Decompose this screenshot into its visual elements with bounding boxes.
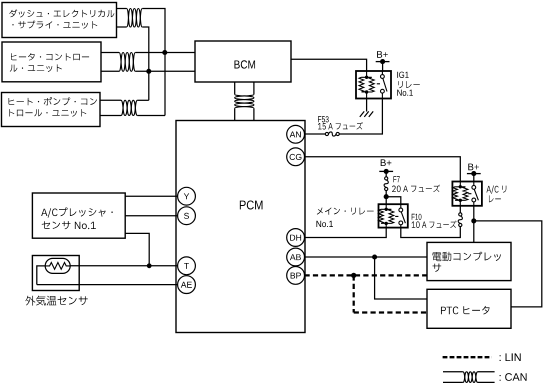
label: main relay line1 bbox=[317, 208, 374, 215]
CAN twisted pair: heater control unit bbox=[119, 53, 135, 72]
junction: AB branch bbox=[372, 254, 377, 259]
wire: heat pump CAN-L to twist bbox=[100, 115, 121, 117]
wire: B+ to A/C relay switch bbox=[473, 174, 475, 182]
label: fuse F10 line1 bbox=[412, 214, 422, 220]
IG1 relay coil bbox=[359, 71, 374, 99]
wire: heater control CAN-H to twist bbox=[101, 52, 119, 54]
fuse F53 bbox=[325, 132, 339, 136]
unit box: dash electrical supply unit bbox=[2, 3, 117, 38]
wire: CAN-H bus top run and right bus drop bbox=[142, 9, 165, 116]
wire: heater control CAN-L to twist bbox=[101, 70, 119, 72]
wire: A/C output to PTC heater bbox=[474, 221, 542, 307]
unit box: heater control unit bbox=[2, 42, 101, 82]
label: IG1 relay line3 bbox=[397, 90, 413, 96]
PCM pin AB bbox=[287, 248, 305, 266]
sensor box: outside air temp sensor bbox=[32, 256, 79, 291]
label: IG1 relay line1 bbox=[397, 72, 408, 78]
label: heater control unit line1 bbox=[11, 53, 89, 61]
power: B+ feed main relay bbox=[379, 159, 393, 174]
CAN twisted pair: dash unit bbox=[127, 9, 143, 28]
label: PCM bbox=[240, 201, 263, 210]
PCM pin T bbox=[178, 257, 196, 275]
wire: BCM to IG1 relay coil bbox=[291, 59, 367, 71]
fuse F7 bbox=[384, 177, 388, 191]
wire: fuse F10 to A/C relay coil bbox=[459, 206, 461, 213]
label: A/C relay line1 bbox=[486, 186, 506, 194]
sensor box: A/C pressure sensor No.1 bbox=[32, 193, 125, 238]
junction: A/C relay output split bbox=[471, 218, 476, 223]
PCM pin BP bbox=[287, 267, 305, 285]
module box: PCM bbox=[176, 121, 305, 333]
label: PTC heater bbox=[441, 306, 490, 315]
label: fuse F53 line1 bbox=[318, 116, 329, 122]
label: A/C pressure sensor line1 bbox=[41, 208, 113, 218]
PCM pin DH bbox=[287, 229, 305, 247]
wire: main relay coil to PCM DH bbox=[305, 228, 387, 238]
A/C relay coil bbox=[453, 182, 468, 206]
wire: heat pump CAN-L to right bus bbox=[137, 115, 165, 117]
wire: PCM CG to A/C relay coil bbox=[305, 157, 461, 182]
wire: CAN-L run to BCM bbox=[135, 70, 195, 72]
main relay coil bbox=[379, 204, 394, 227]
junction: CAN-L bus bbox=[146, 69, 151, 74]
label: legend CAN bbox=[500, 373, 527, 381]
wire: temp sensor return loop bbox=[37, 266, 45, 285]
CAN twisted pair: heat pump unit bbox=[121, 100, 137, 115]
label: IG1 relay line2 bbox=[398, 81, 420, 88]
wire: B+ to fuse F7 bbox=[385, 171, 387, 176]
label: heater control unit line2 bbox=[10, 64, 62, 72]
wire: pressure sensor to PCM Y bbox=[125, 195, 177, 197]
label: fuse F53 line2 bbox=[318, 122, 363, 130]
wire: IG1 coil to ground bbox=[366, 99, 368, 112]
wire: temp sensor to PCM T bbox=[70, 265, 177, 267]
label: heat pump control unit line2 bbox=[9, 109, 86, 117]
wire: fuse F7 to main relay coil bbox=[385, 191, 387, 205]
module box: BCM bbox=[195, 41, 291, 82]
thermistor symbol: outside air temp sensor bbox=[45, 258, 70, 273]
wire: IG1 switch to fuse F53 to PCM AN bbox=[305, 99, 383, 135]
label: fuse F7 line1 bbox=[393, 176, 399, 182]
PCM pin Y bbox=[178, 187, 196, 205]
junction: sensor shared T line bbox=[147, 263, 152, 268]
wire: PCM AB to compressor bbox=[305, 256, 428, 258]
equipment box: PTC heater bbox=[427, 289, 511, 328]
CAN twisted pair: BCM-PCM bbox=[235, 94, 254, 108]
label: dash electrical supply unit line1 bbox=[9, 9, 114, 17]
label: A/C pressure sensor line2 bbox=[42, 221, 96, 229]
label: legend LIN bbox=[500, 353, 521, 361]
wire: pressure sensor to PCM S bbox=[125, 215, 177, 217]
wire: dash unit CAN-H to twist bbox=[117, 8, 127, 10]
wire: pressure sensor to T line bbox=[125, 233, 149, 265]
ground: IG1 relay bbox=[360, 111, 373, 117]
label: fuse F7 line2 bbox=[392, 185, 440, 193]
PCM pin AN bbox=[287, 125, 305, 143]
wire: heat pump CAN-H to twist bbox=[100, 99, 121, 101]
label: A/C relay line2 bbox=[489, 195, 501, 202]
relay box: IG1 relay No.1 bbox=[356, 71, 391, 99]
junction: CAN-H bus bbox=[162, 50, 167, 55]
wire: A/C relay switch output bbox=[473, 206, 475, 243]
wire: heat pump CAN-H to left bus bbox=[137, 99, 148, 101]
label: dash electrical supply unit line2 bbox=[12, 21, 97, 29]
legend: CAN twisted pair sample bbox=[463, 372, 478, 383]
power: B+ feed A/C relay bbox=[467, 164, 481, 177]
PCM pin CG bbox=[287, 148, 305, 166]
label: electric compressor line2 bbox=[433, 264, 442, 272]
label: BCM bbox=[234, 60, 255, 68]
wire: BP LIN branch to PTC heater bbox=[354, 275, 427, 312]
label: main relay line2 bbox=[316, 221, 332, 227]
relay box: A/C relay bbox=[452, 182, 482, 206]
wire: temp sensor to PCM AE bbox=[37, 284, 178, 286]
wire: B+ to IG1 relay switch bbox=[382, 62, 384, 71]
wire: AB branch to PTC heater bbox=[375, 257, 427, 299]
legend: LIN dashed sample bbox=[443, 356, 492, 358]
unit box: heat pump control unit bbox=[2, 93, 101, 127]
junction: BP LIN branch bbox=[351, 273, 356, 278]
label: heat pump control unit line1 bbox=[9, 97, 97, 105]
junction: main relay feed split bbox=[384, 194, 389, 199]
label: fuse F10 line2 bbox=[412, 221, 457, 229]
PCM pin AE bbox=[178, 276, 196, 294]
wire: BCM-PCM CAN pair verticals bbox=[235, 82, 254, 121]
main relay switch contact bbox=[395, 204, 405, 227]
power: B+ feed IG1 relay bbox=[376, 51, 390, 64]
PCM pin S bbox=[178, 207, 196, 225]
wire: PCM BP LIN to compressor bbox=[305, 274, 428, 276]
wire: CAN-L to left bus bbox=[142, 27, 149, 100]
equipment box: electric compressor bbox=[427, 242, 511, 280]
IG1 relay switch contact bbox=[377, 71, 387, 99]
label: electric compressor line1 bbox=[432, 252, 500, 261]
relay box: main relay No.1 bbox=[379, 204, 408, 227]
wire: dash unit CAN-L to twist bbox=[117, 26, 127, 28]
wire: feed to main relay switch bbox=[386, 197, 401, 205]
label: outside air temp sensor bbox=[25, 296, 87, 306]
legend: CAN sample wires bbox=[443, 372, 495, 383]
A/C relay switch contact bbox=[468, 182, 478, 206]
fuse F10 bbox=[458, 213, 462, 227]
wire: CAN-H run to BCM bbox=[135, 52, 195, 54]
wire: main relay switch to fuse F10 bbox=[401, 227, 461, 238]
